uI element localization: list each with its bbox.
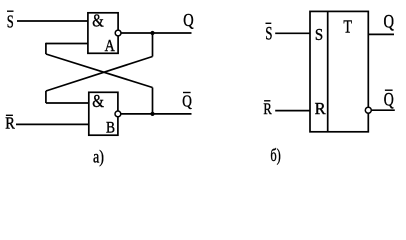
wire A output to Q [121, 32, 192, 34]
svg-text:B: B [106, 120, 115, 137]
svg-text:R: R [263, 101, 272, 118]
wire R-bar to trigger R input [275, 110, 310, 112]
label S-bar (input S of part b) [265, 23, 272, 44]
svg-text:R: R [315, 99, 326, 118]
wire vertical from A output junction down [152, 33, 154, 57]
NAND gate B body [89, 92, 118, 135]
RS-trigger body U1 [310, 11, 368, 131]
svg-text:Q: Q [183, 10, 194, 30]
wire vertical from A input 2 down [45, 43, 47, 54]
wire into B input 1 [46, 102, 89, 104]
wire diagonal from B output feedback up to A input 2 [46, 54, 153, 88]
gate B output bubble [115, 111, 121, 117]
wire vertical down to B output junction [152, 88, 154, 114]
svg-text:S: S [265, 23, 272, 44]
NAND gate A body [88, 13, 118, 54]
svg-text:S: S [315, 25, 323, 44]
svg-text:T: T [343, 16, 352, 36]
trigger input-column divider [327, 11, 329, 131]
junction dot on A output [150, 31, 154, 35]
junction dot on B output [150, 112, 154, 116]
wire Q output (part b) [368, 33, 394, 35]
gate A output bubble [115, 30, 121, 36]
wire A input 2 horizontal [46, 43, 88, 45]
label R-bar (input R of part a) [5, 114, 15, 133]
svg-text:A: A [105, 36, 116, 55]
svg-text:Q: Q [384, 11, 395, 32]
wire B output to Q-bar [121, 113, 192, 115]
wire vertical down to B input 1 [45, 91, 47, 103]
label Q-bar (part a) [182, 92, 192, 111]
wire Q-bar output (part b) [371, 109, 394, 111]
svg-text:а): а) [93, 146, 104, 166]
wire S-bar to trigger S input [275, 32, 310, 34]
wire R-bar to gate B input 2 [16, 123, 89, 125]
svg-text:Q: Q [384, 90, 394, 111]
inversion bubble on Q-bar output [365, 107, 371, 113]
svg-text:R: R [5, 114, 15, 133]
label R-bar (input R of part b) [263, 101, 272, 118]
wire diagonal from A output down to B input 1 [46, 57, 153, 92]
svg-text:б): б) [270, 145, 281, 165]
svg-text:&: & [92, 91, 104, 111]
wire S-bar to gate A input 1 [17, 20, 88, 22]
label Q-bar (part b) [384, 90, 394, 111]
svg-text:S: S [7, 11, 14, 31]
svg-text:Q: Q [182, 92, 192, 111]
label S-bar (input S of part a) [7, 11, 14, 31]
svg-text:&: & [92, 11, 104, 31]
